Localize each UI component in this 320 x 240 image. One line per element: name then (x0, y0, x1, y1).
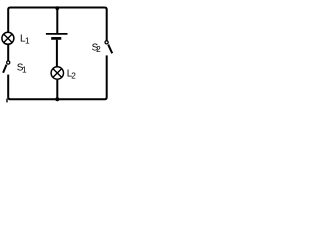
svg-text:2: 2 (71, 71, 76, 81)
node junction bottom (55, 97, 59, 101)
battery short plate (51, 37, 61, 40)
node junction top (55, 6, 59, 10)
wire middle vertical (lamp L2 to bottom) (56, 80, 58, 99)
corner bottom-left stub (6, 99, 8, 103)
switch S2 blade (108, 45, 112, 54)
corner top-right (105, 8, 107, 10)
svg-text:1: 1 (22, 64, 27, 74)
corner top-left (8, 8, 10, 10)
wire left vertical (lamp L1 to switch S1) (7, 44, 9, 60)
switch S1 blade (3, 65, 6, 73)
svg-text:1: 1 (25, 35, 30, 45)
wire right vertical (below S2 to bottom) (106, 55, 108, 97)
wire middle vertical (top to battery) (56, 8, 58, 34)
switch S1 pivot circle (7, 61, 10, 64)
wire middle vertical (battery to lamp L2) (56, 40, 58, 67)
wire top horizontal (10, 7, 105, 9)
wire left vertical (below S1 to bottom) (7, 75, 9, 98)
svg-text:2: 2 (96, 44, 101, 54)
switch S2 pivot circle (105, 41, 108, 44)
lamp L2 (51, 67, 63, 79)
corner bottom-left (8, 97, 10, 99)
wire left vertical top segment (to lamp L1) (7, 9, 9, 32)
battery long plate (46, 33, 68, 35)
wire bottom horizontal (10, 98, 105, 100)
corner bottom-right (105, 97, 107, 99)
wire right vertical (top to switch S2) (106, 9, 108, 40)
lamp L1 (2, 32, 14, 44)
